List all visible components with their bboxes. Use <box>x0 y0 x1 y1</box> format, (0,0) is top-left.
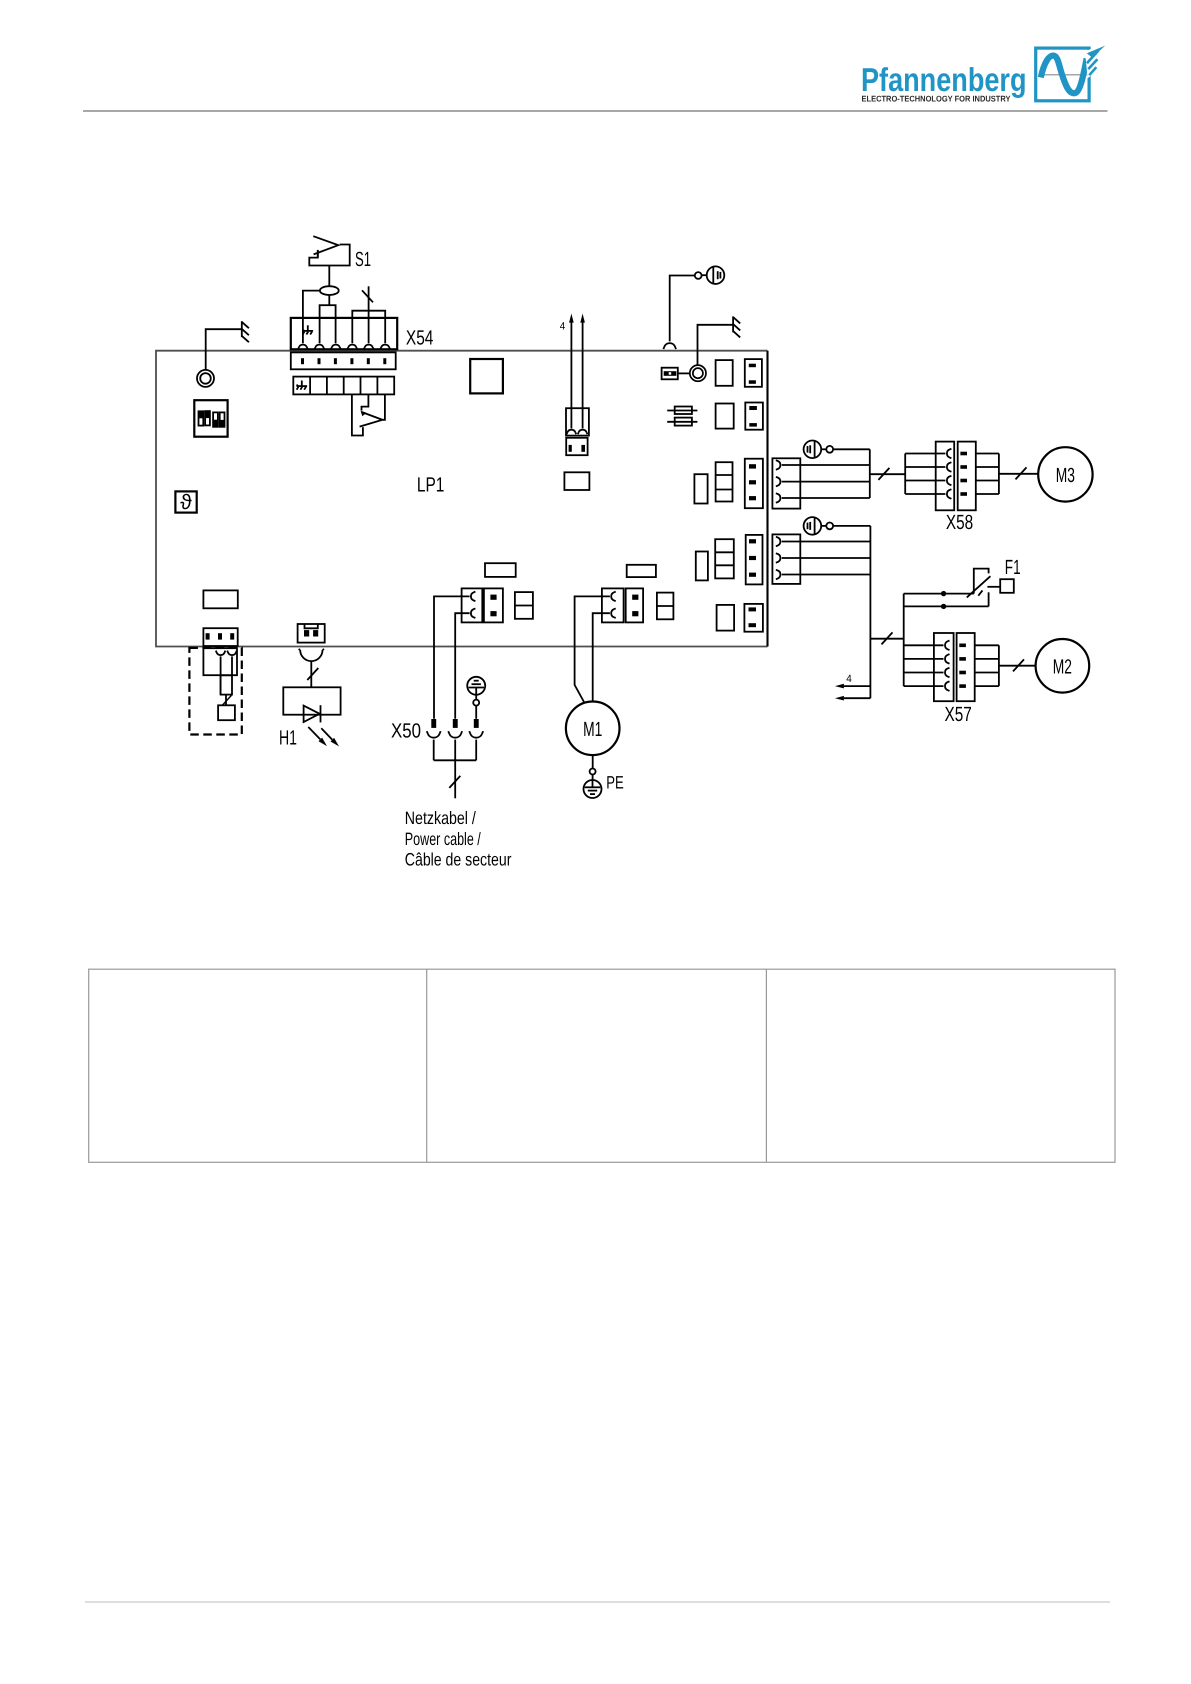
svg-text:Câble de secteur: Câble de secteur <box>405 849 512 869</box>
svg-text:ϑ: ϑ <box>180 491 192 514</box>
svg-text:Pfannenberg: Pfannenberg <box>861 61 1027 98</box>
svg-text:X50: X50 <box>391 719 421 742</box>
svg-text:PE: PE <box>606 773 624 793</box>
svg-text:4: 4 <box>560 321 566 333</box>
svg-text:X54: X54 <box>406 327 434 350</box>
svg-text:4: 4 <box>846 673 852 685</box>
svg-text:M2: M2 <box>1053 655 1072 678</box>
svg-text:M3: M3 <box>1056 464 1075 487</box>
svg-text:M1: M1 <box>583 718 602 741</box>
svg-text:X58: X58 <box>946 511 973 534</box>
svg-text:X57: X57 <box>945 703 972 726</box>
svg-text:ELECTRO-TECHNOLOGY FOR INDUSTR: ELECTRO-TECHNOLOGY FOR INDUSTRY <box>862 94 1011 104</box>
svg-text:S1: S1 <box>355 248 371 271</box>
svg-text:Power cable /: Power cable / <box>405 829 481 849</box>
svg-text:LP1: LP1 <box>417 474 445 497</box>
svg-text:F1: F1 <box>1005 556 1021 579</box>
svg-text:Netzkabel /: Netzkabel / <box>405 808 476 828</box>
svg-text:H1: H1 <box>279 726 297 749</box>
